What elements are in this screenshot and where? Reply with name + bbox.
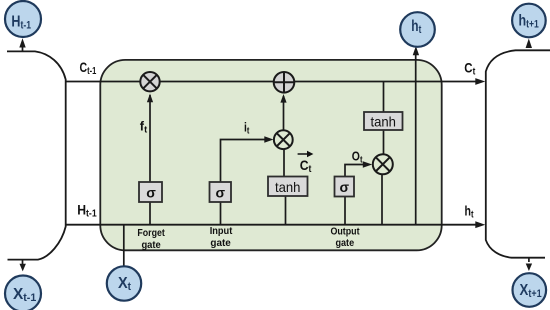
sigma box output gate [335, 177, 355, 197]
LSTM cell body [100, 60, 441, 250]
wire: input gate stem down [220, 202, 222, 225]
svg-text:tanh: tanh [275, 179, 301, 195]
node ht+1 [512, 4, 546, 38]
svg-text:tanh: tanh [370, 114, 396, 130]
node Xt [107, 266, 141, 300]
wire: multiply up to add arrow [283, 96, 285, 131]
svg-text:Forget: Forget [137, 228, 165, 239]
wire: hidden state line Ht-1 to ht [66, 224, 477, 226]
wire: forget gate stem down [149, 202, 151, 225]
wire: arrow up to ht+1 node [526, 39, 532, 49]
svg-text:Output: Output [330, 227, 360, 238]
svg-text:σ: σ [216, 185, 226, 201]
wire: Xt input stem [123, 225, 125, 267]
svg-text:Ct: Ct [464, 60, 476, 78]
node Xt-1 [5, 276, 41, 310]
node Xt+1 [513, 273, 547, 307]
node Ht-1 [5, 1, 41, 37]
svg-text:Ht-1: Ht-1 [77, 201, 97, 219]
sigma box input gate [210, 182, 232, 202]
node ht [400, 12, 435, 47]
wire: input gate it path to multiply [221, 140, 268, 183]
tanh box candidate [268, 177, 308, 197]
wire: candidate tanh stem down [285, 196, 287, 225]
svg-text:σ: σ [146, 185, 156, 201]
svg-text:ht: ht [465, 202, 474, 220]
svg-text:gate: gate [210, 238, 231, 249]
multiply node input (open) [274, 130, 293, 149]
svg-text:σ: σ [340, 179, 350, 195]
wire: arrow down to Xt+1 node [528, 258, 530, 262]
wire: left recurrent brace [7, 51, 66, 259]
wire: output multiply down to hidden line [381, 175, 383, 225]
wire: candidate tanh up to multiply [283, 149, 285, 177]
wire: cell state line Ct-1 to Ct [66, 81, 477, 83]
multiply node output (open) [373, 154, 393, 174]
wire: ht output vertical to ht node [415, 54, 417, 225]
tanh box cell output [364, 112, 403, 130]
svg-text:Input: Input [210, 226, 233, 237]
label C~t candidate with vector arrow [298, 151, 314, 175]
wire: cell line down through tanh2 [383, 82, 385, 113]
add node (gray) [274, 72, 295, 93]
sigma box forget gate [139, 182, 162, 202]
svg-text:Ct-1: Ct-1 [80, 59, 97, 77]
wire: arrow up to Ht-1 node [22, 45, 24, 51]
wire: output gate Ot path to multiply [345, 165, 366, 177]
multiply node forget (gray) [140, 72, 159, 91]
svg-text:gate: gate [141, 240, 161, 251]
wire: arrow down to Xt-1 node [22, 260, 24, 266]
wire: output gate stem down [344, 197, 346, 225]
svg-text:gate: gate [335, 238, 354, 249]
wire: forget gate to multiply arrow [149, 95, 151, 182]
wire: right recurrent brace [486, 50, 550, 257]
